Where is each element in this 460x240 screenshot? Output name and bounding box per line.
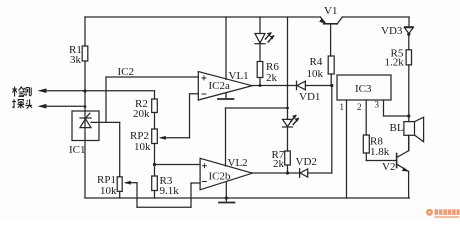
svg-text:R4: R4 — [310, 56, 323, 68]
svg-text:3k: 3k — [70, 54, 82, 66]
svg-text:1.2k: 1.2k — [385, 57, 405, 69]
svg-text:2: 2 — [357, 102, 362, 112]
svg-text:IC2b: IC2b — [209, 171, 232, 183]
svg-text:BL: BL — [390, 122, 404, 134]
svg-text:VD2: VD2 — [296, 156, 317, 168]
svg-text:IC2: IC2 — [118, 66, 135, 78]
svg-text:V2: V2 — [382, 161, 395, 173]
svg-text:IC1: IC1 — [69, 144, 86, 156]
svg-text:VD1: VD1 — [299, 91, 320, 103]
svg-text:1: 1 — [340, 102, 345, 112]
svg-text:IC2a: IC2a — [209, 80, 231, 92]
svg-text:10k: 10k — [134, 141, 151, 153]
svg-text:VL2: VL2 — [228, 157, 248, 169]
svg-text:2k: 2k — [266, 72, 278, 84]
svg-text:10k: 10k — [307, 68, 324, 80]
svg-text:2k: 2k — [273, 158, 285, 170]
svg-text:1.8k: 1.8k — [370, 146, 390, 158]
svg-text:IC3: IC3 — [355, 83, 372, 95]
svg-text:VL1: VL1 — [229, 70, 249, 82]
svg-text:9.1k: 9.1k — [160, 185, 180, 197]
svg-text:20k: 20k — [133, 108, 150, 120]
svg-text:10k: 10k — [100, 185, 117, 197]
svg-text:3: 3 — [375, 100, 380, 110]
svg-text:VD3: VD3 — [381, 25, 403, 37]
svg-text:V1: V1 — [324, 5, 337, 17]
